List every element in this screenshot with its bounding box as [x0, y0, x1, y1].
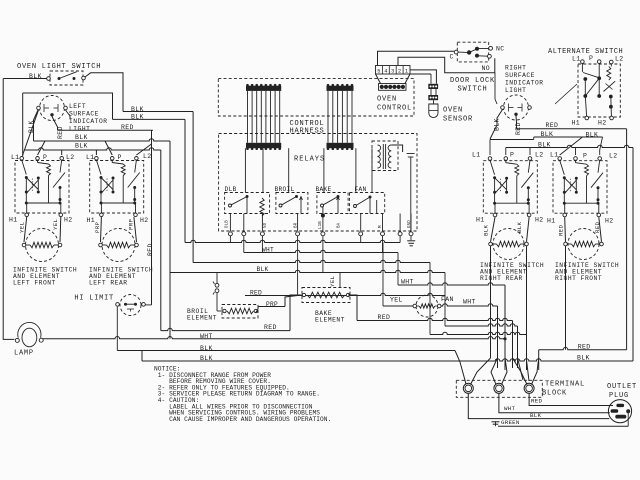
svg-text:WHT: WHT: [401, 279, 414, 286]
svg-text:H1: H1: [9, 217, 17, 224]
svg-text:L1: L1: [550, 151, 558, 158]
svg-text:RED: RED: [378, 314, 391, 321]
svg-text:H2: H2: [535, 217, 543, 224]
svg-text:NO: NO: [264, 222, 268, 228]
svg-text:BLK: BLK: [483, 224, 490, 236]
svg-text:SWITCH: SWITCH: [458, 86, 488, 94]
svg-text:FAN: FAN: [441, 296, 454, 303]
svg-text:PLUG: PLUG: [609, 392, 629, 400]
svg-text:L1B: L1B: [319, 221, 323, 229]
svg-text:P: P: [118, 154, 122, 161]
svg-text:HARNESS: HARNESS: [290, 128, 325, 136]
svg-text:GND: GND: [408, 220, 412, 228]
svg-text:RED: RED: [57, 126, 64, 139]
svg-text:LAMP: LAMP: [14, 350, 34, 358]
svg-text:L1: L1: [572, 56, 580, 63]
svg-text:DOOR LOCK: DOOR LOCK: [450, 77, 495, 85]
svg-text:CAN CAUSE IMPROPER AND DANGERO: CAN CAUSE IMPROPER AND DANGEROUS OPERATI…: [154, 416, 331, 423]
svg-text:1: 1: [405, 68, 408, 74]
svg-text:PRP: PRP: [128, 218, 135, 230]
svg-text:RIGHT FRONT: RIGHT FRONT: [555, 275, 602, 282]
svg-text:BROIL: BROIL: [275, 186, 295, 193]
svg-text:P: P: [510, 152, 514, 159]
svg-text:H2: H2: [140, 217, 148, 224]
svg-text:SURFACE: SURFACE: [69, 111, 99, 118]
svg-text:ELEMENT: ELEMENT: [187, 315, 217, 322]
svg-text:PRP: PRP: [94, 221, 101, 233]
svg-text:2: 2: [398, 68, 401, 74]
svg-text:H2: H2: [605, 218, 613, 225]
svg-text:BA: BA: [338, 222, 342, 228]
svg-text:ALTERNATE SWITCH: ALTERNATE SWITCH: [548, 48, 623, 56]
svg-text:RED: RED: [264, 324, 277, 331]
svg-text:M: M: [379, 225, 383, 228]
svg-text:L2: L2: [609, 153, 617, 160]
svg-text:RED: RED: [546, 122, 559, 129]
svg-text:SENSOR: SENSOR: [443, 116, 473, 124]
svg-text:BLK: BLK: [131, 113, 144, 120]
svg-text:L2: L2: [535, 151, 543, 158]
svg-text:ELEMENT: ELEMENT: [315, 317, 345, 324]
svg-text:L2: L2: [615, 56, 623, 63]
svg-text:BLK: BLK: [577, 355, 590, 362]
svg-text:LEFT REAR: LEFT REAR: [89, 280, 128, 287]
svg-text:BLK: BLK: [131, 106, 144, 113]
svg-text:OVEN: OVEN: [377, 96, 397, 104]
svg-text:NO: NO: [482, 65, 490, 72]
svg-text:YEL: YEL: [329, 275, 336, 287]
svg-text:RED: RED: [147, 243, 154, 256]
svg-text:L1: L1: [86, 154, 94, 161]
svg-text:SURFACE: SURFACE: [505, 72, 535, 79]
svg-text:L2: L2: [143, 153, 151, 160]
svg-text:LIGHT: LIGHT: [69, 126, 90, 133]
svg-text:P: P: [43, 154, 47, 161]
svg-text:RIGHT REAR: RIGHT REAR: [480, 275, 523, 282]
svg-text:YEL: YEL: [52, 218, 59, 230]
svg-text:H2: H2: [598, 120, 606, 127]
svg-text:DLB: DLB: [226, 220, 230, 228]
svg-text:HI LIMIT: HI LIMIT: [74, 295, 114, 303]
svg-text:RED: RED: [594, 221, 601, 233]
svg-text:LEFT: LEFT: [69, 103, 86, 110]
svg-text:BLK: BLK: [75, 134, 88, 141]
svg-text:NC: NC: [496, 46, 504, 53]
svg-text:H1: H1: [572, 120, 580, 127]
svg-text:H1: H1: [476, 217, 484, 224]
svg-text:4: 4: [384, 68, 387, 74]
svg-text:OUTLET: OUTLET: [607, 383, 637, 391]
svg-text:OVEN LIGHT SWITCH: OVEN LIGHT SWITCH: [17, 63, 101, 71]
svg-text:TERMINAL: TERMINAL: [545, 381, 585, 389]
svg-text:INDICATOR: INDICATOR: [505, 80, 544, 87]
svg-text:BLK: BLK: [257, 266, 269, 273]
svg-text:P: P: [583, 153, 587, 160]
svg-text:RIGHT: RIGHT: [505, 65, 526, 72]
svg-text:RELAYS: RELAYS: [294, 156, 325, 164]
svg-text:RED: RED: [558, 224, 565, 236]
svg-text:H2: H2: [64, 217, 72, 224]
svg-text:LIGHT: LIGHT: [505, 87, 526, 94]
svg-text:DLB: DLB: [225, 186, 237, 193]
svg-text:5: 5: [377, 68, 380, 74]
svg-text:LEFT FRONT: LEFT FRONT: [13, 280, 56, 287]
svg-text:YEL: YEL: [390, 297, 403, 304]
svg-text:OVEN: OVEN: [443, 107, 463, 115]
svg-text:BLK: BLK: [516, 221, 523, 233]
svg-text:L1: L1: [11, 154, 19, 161]
svg-text:WHT: WHT: [504, 405, 515, 412]
svg-text:L1: L1: [472, 152, 480, 159]
svg-text:INDICATOR: INDICATOR: [69, 118, 108, 125]
svg-text:CONTROL: CONTROL: [377, 105, 412, 113]
svg-text:L2: L2: [66, 154, 74, 161]
svg-text:BLK: BLK: [75, 143, 88, 150]
svg-text:RED: RED: [531, 398, 542, 405]
svg-text:BR: BR: [294, 222, 298, 228]
svg-text:YEL: YEL: [19, 221, 26, 233]
svg-text:WHT: WHT: [463, 299, 476, 306]
svg-text:H1: H1: [547, 218, 555, 225]
svg-text:BLOCK: BLOCK: [542, 390, 567, 398]
svg-text:P: P: [589, 55, 593, 62]
svg-text:C: C: [450, 54, 454, 61]
svg-text:GREEN: GREEN: [501, 419, 520, 426]
svg-text:3: 3: [391, 68, 394, 74]
